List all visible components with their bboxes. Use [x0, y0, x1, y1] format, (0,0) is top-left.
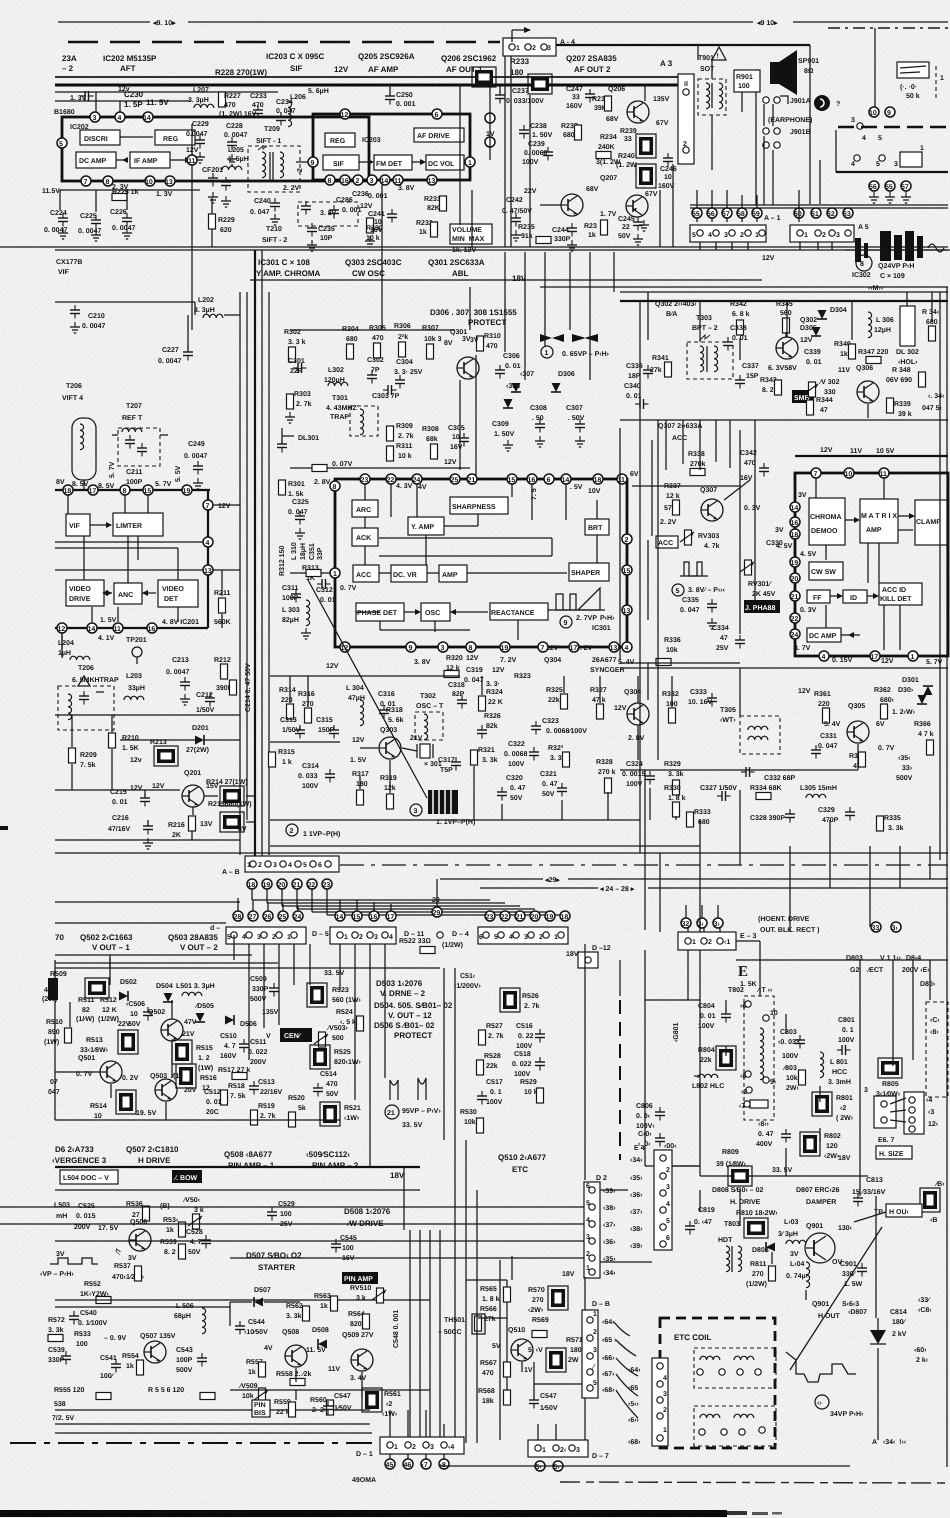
svg-text:3: 3	[864, 1087, 868, 1094]
svg-text:R518: R518	[228, 1083, 245, 1090]
pin 7 12V	[203, 500, 240, 510]
svg-text:SIF: SIF	[290, 64, 303, 73]
svg-text:680‹: 680‹	[880, 697, 895, 704]
resistor R313	[290, 565, 330, 582]
svg-text:100V: 100V	[514, 1071, 531, 1078]
svg-text:‹8›: ‹8›	[930, 1029, 939, 1036]
tag 65e	[628, 1385, 638, 1392]
svg-text:330: 330	[824, 389, 836, 396]
svg-text:11. 5V: 11. 5V	[146, 98, 169, 107]
pin 16 bottom	[340, 175, 350, 185]
svg-text:Q301 2SC633A: Q301 2SC633A	[428, 258, 485, 267]
node 2 waveform	[286, 824, 340, 838]
svg-text:il: il	[684, 80, 688, 88]
op-amp FM DET	[374, 155, 412, 170]
svg-text:D 2: D 2	[596, 1175, 607, 1182]
capacitor C313	[280, 717, 305, 739]
svg-text:18: 18	[64, 488, 72, 495]
svg-text:0. 022: 0. 022	[248, 1049, 268, 1056]
svg-text:1. 50V: 1. 50V	[494, 431, 515, 438]
label D508 PW DRIVE	[344, 1207, 391, 1228]
label R323	[486, 673, 531, 688]
capacitor C305	[448, 425, 469, 451]
svg-text:Q509 27V: Q509 27V	[342, 1332, 374, 1339]
inductor L506	[174, 1303, 206, 1334]
svg-text:47 k: 47 k	[592, 696, 606, 704]
pin 22 left	[790, 613, 800, 623]
svg-text:C514: C514	[320, 1071, 337, 1078]
svg-text:1: 1	[554, 934, 558, 941]
svg-text:D – 5: D – 5	[312, 931, 329, 938]
svg-text:!: !	[717, 53, 719, 60]
svg-text:2: 2	[272, 934, 276, 941]
capacitor C242	[502, 197, 532, 241]
wire dashed border right	[838, 127, 948, 142]
svg-text:‹VERGENCE 3: ‹VERGENCE 3	[52, 1156, 107, 1165]
tag 37r	[603, 1222, 616, 1229]
capacitor C246	[658, 153, 677, 190]
transistor Q901	[790, 1223, 853, 1266]
svg-text:1: 1	[542, 1447, 546, 1454]
svg-text:C511: C511	[250, 1039, 266, 1046]
svg-text:D507: D507	[254, 1287, 271, 1294]
resistor R347	[858, 349, 888, 364]
capacitor C901	[840, 1261, 867, 1288]
svg-text:7: 7	[84, 179, 88, 186]
wire hdrive rails	[55, 1167, 420, 1190]
svg-text:Q508 ‹8A677: Q508 ‹8A677	[224, 1150, 273, 1159]
capacitor C212	[196, 692, 215, 714]
wire aux lines left	[55, 86, 278, 101]
svg-text:1⁄50V: 1⁄50V	[334, 1405, 352, 1412]
tag 55	[885, 181, 895, 203]
pin 9 fbt	[763, 1077, 769, 1083]
resistor R517	[218, 1066, 250, 1080]
resistor R559	[274, 1399, 296, 1417]
svg-text:47: 47	[820, 407, 828, 414]
svg-text:0. 0047: 0. 0047	[112, 225, 135, 232]
svg-text:R571: R571	[566, 1337, 583, 1344]
svg-text:7: 7	[541, 645, 545, 652]
resistor R537	[112, 1263, 145, 1281]
part PB box	[920, 1181, 945, 1224]
svg-text:‹C506: ‹C506	[126, 1001, 145, 1008]
svg-text:V OUT – 2: V OUT – 2	[180, 943, 218, 952]
pin 18	[593, 474, 603, 484]
resistor R558	[276, 1370, 312, 1386]
transformer T802 FBT	[728, 987, 778, 1120]
op-amp CHROMA DEMOD	[809, 498, 845, 545]
svg-text:3. 3µH: 3. 3µH	[194, 307, 215, 314]
svg-text:V 1 1‹›: V 1 1‹›	[880, 955, 902, 962]
svg-text:R228 270(1W): R228 270(1W)	[215, 68, 267, 77]
wire diagonal pointer C312	[308, 580, 427, 798]
svg-text:ETC COIL: ETC COIL	[674, 1333, 711, 1342]
svg-text:C806: C806	[636, 1103, 653, 1110]
resistor R311	[387, 443, 413, 461]
resistor R563	[314, 1293, 338, 1311]
svg-text:50V: 50V	[542, 791, 555, 798]
resistor R528	[477, 1053, 501, 1075]
svg-text:D508: D508	[312, 1327, 329, 1334]
transformer T207	[112, 403, 168, 466]
svg-text:ABL: ABL	[452, 269, 469, 278]
resistor R345	[776, 301, 793, 333]
svg-text:L204: L204	[58, 640, 74, 647]
svg-text:C286: C286	[336, 197, 353, 204]
svg-text:0. 047: 0. 047	[818, 743, 838, 750]
svg-text:. 50V: . 50V	[568, 415, 585, 422]
diode D303	[917, 695, 927, 704]
svg-text:V. DRNE – 2: V. DRNE – 2	[380, 989, 426, 998]
resistor R341	[650, 355, 672, 377]
capacitor C540	[69, 1310, 108, 1327]
svg-text:‹65 ›: ‹65 ›	[602, 1337, 617, 1344]
svg-text:C325: C325	[292, 499, 309, 506]
tag 45	[385, 1454, 395, 1469]
capacitor C806	[636, 1103, 665, 1130]
part J.PHASE	[744, 600, 780, 613]
resistor R241 black	[636, 164, 656, 188]
svg-text:1. 5P: 1. 5P	[124, 100, 143, 109]
svg-text:KILL DET: KILL DET	[880, 596, 912, 603]
svg-text:82k: 82k	[486, 722, 498, 730]
svg-text:5: 5	[586, 1200, 590, 1207]
svg-text:470: 470	[372, 335, 384, 342]
svg-text:4 7 k: 4 7 k	[918, 730, 934, 738]
pin 9 left	[308, 157, 318, 167]
svg-text:0. 0068: 0. 0068	[504, 751, 527, 758]
svg-text:0. 0047: 0. 0047	[224, 132, 247, 139]
svg-text:R805: R805	[882, 1081, 899, 1088]
pin 23	[360, 474, 370, 484]
resistor R348	[886, 367, 926, 387]
svg-text:T803: T803	[724, 1221, 740, 1228]
svg-text:‹36›: ‹36›	[603, 1239, 616, 1246]
svg-text:R341: R341	[652, 355, 669, 362]
resistor R339	[887, 398, 912, 418]
svg-text:D503 1‹2076: D503 1‹2076	[376, 979, 423, 988]
svg-text:3. 3 k: 3. 3 k	[288, 338, 306, 346]
svg-text:(1/2W): (1/2W)	[442, 941, 463, 949]
svg-text:R316: R316	[298, 691, 315, 698]
svg-text:1. 8 k: 1. 8 k	[482, 1295, 500, 1303]
svg-text:330P: 330P	[554, 236, 571, 243]
part PIN BIS	[252, 1400, 270, 1417]
svg-text:13: 13	[165, 179, 173, 186]
wire chroma to connector row	[645, 770, 930, 932]
capacitor C342b	[740, 450, 769, 512]
svg-text:R528: R528	[484, 1053, 501, 1060]
svg-text:3: 3	[524, 934, 528, 941]
connector E-3	[678, 932, 756, 950]
svg-text:0. 033: 0. 033	[298, 773, 318, 780]
tag 34r	[603, 1270, 616, 1277]
capacitor C325	[288, 499, 309, 539]
svg-text:1/50V: 1/50V	[196, 706, 215, 714]
op-amp ACC ID KILL DET	[879, 583, 922, 605]
svg-text:PIN AMP – 2: PIN AMP – 2	[312, 1161, 359, 1170]
svg-text:047: 047	[48, 1089, 60, 1096]
svg-text:CX177B: CX177B	[56, 259, 82, 266]
svg-text:‹35›: ‹35›	[630, 1175, 643, 1182]
svg-text:12V: 12V	[186, 147, 199, 154]
tag 23	[322, 879, 332, 889]
svg-text:L207: L207	[193, 87, 209, 94]
pin 4	[203, 537, 213, 547]
svg-text:10k: 10k	[666, 646, 678, 654]
connector fan E6	[874, 1092, 939, 1134]
resistor R321	[471, 747, 498, 765]
resistor R302	[284, 329, 306, 362]
resistor R306	[394, 323, 411, 357]
svg-text:S‹6‹3: S‹6‹3	[842, 1301, 859, 1308]
svg-text:8: 8	[860, 261, 864, 268]
wires lower center	[270, 676, 700, 846]
capacitor C804	[698, 1003, 731, 1030]
svg-text:0. 01: 0. 01	[626, 393, 642, 400]
svg-text:C512: C512	[204, 1089, 221, 1096]
svg-text:2K 45V: 2K 45V	[752, 591, 776, 598]
wire sif to fmdet	[359, 159, 426, 165]
svg-text:12V: 12V	[444, 459, 457, 466]
svg-text:C544: C544	[248, 1319, 265, 1326]
svg-text:10k: 10k	[786, 1074, 798, 1082]
svg-text:200V: 200V	[250, 1059, 267, 1066]
wire mid rail	[55, 1300, 430, 1307]
svg-text:DC. VR: DC. VR	[393, 572, 417, 579]
dashed box right IC	[926, 1002, 948, 1097]
tag 66b	[602, 1355, 615, 1362]
label right caps	[914, 1297, 932, 1364]
pin 11b	[98, 623, 123, 642]
capacitor C224	[44, 210, 68, 239]
transistor Q207b	[600, 175, 658, 231]
svg-text:0. 65VP – P‹H›: 0. 65VP – P‹H›	[562, 351, 610, 358]
svg-text:‹G801: ‹G801	[673, 1022, 680, 1042]
capacitor C340	[624, 383, 649, 409]
pin 16	[527, 474, 537, 484]
capacitor C320	[497, 775, 526, 802]
svg-text:33. 5V: 33. 5V	[772, 1167, 793, 1174]
svg-text:1: 1	[516, 45, 520, 52]
label D803 G2 RECT	[846, 955, 936, 988]
svg-text:C801: C801	[838, 1017, 855, 1024]
svg-text:2. 2V: 2. 2V	[660, 519, 677, 526]
svg-text:R533: R533	[74, 1331, 91, 1338]
svg-text:C540: C540	[80, 1310, 97, 1317]
svg-text:22: 22	[791, 616, 799, 623]
op-amp REG	[155, 130, 195, 145]
svg-text:1. 2: 1. 2	[198, 1055, 210, 1062]
svg-text:1: 1	[911, 654, 915, 661]
svg-text:135V: 135V	[653, 96, 670, 103]
resistor R317	[352, 771, 369, 805]
svg-text:SYNCGER: SYNCGER	[590, 667, 625, 674]
tag 57	[901, 181, 911, 203]
resistor R333	[687, 809, 711, 827]
svg-text:12V: 12V	[360, 203, 373, 210]
svg-text:V. OUT – 12: V. OUT – 12	[388, 1011, 432, 1020]
resistor R342	[730, 301, 750, 335]
pot RV302	[804, 379, 840, 397]
svg-text:1. 8 k: 1. 8 k	[668, 794, 686, 802]
svg-text:C803: C803	[780, 1029, 797, 1036]
svg-text:4. 3V: 4. 3V	[396, 483, 413, 490]
speaker SP901	[770, 50, 819, 95]
test point TP201	[126, 637, 147, 664]
pin 8	[103, 176, 113, 186]
svg-text:5. 6k: 5. 6k	[388, 716, 404, 724]
svg-text:0. 015: 0. 015	[76, 1213, 96, 1220]
svg-text:‹5‹›: ‹5‹›	[628, 1401, 640, 1408]
svg-text:R301: R301	[288, 481, 305, 488]
coil etc1	[694, 1348, 776, 1388]
transistor Q507	[140, 1333, 176, 1363]
label CX177B VIF	[56, 259, 82, 276]
svg-text:1: 1	[545, 350, 549, 357]
svg-text:C337: C337	[742, 363, 759, 370]
svg-text:22 k: 22 k	[276, 1408, 290, 1416]
svg-text:C338: C338	[730, 325, 747, 332]
trap T206 6.5MHZ	[58, 665, 119, 730]
op-amp Y AMP	[408, 517, 444, 535]
svg-text:C51‹: C51‹	[460, 973, 476, 980]
wire vert-section verticals	[55, 944, 370, 1167]
resistor R525 black	[310, 1045, 362, 1069]
svg-text:0. 74µ‹: 0. 74µ‹	[786, 1273, 809, 1280]
pin 19 bottom	[500, 642, 510, 652]
pin 12b	[57, 623, 67, 633]
capacitor C516	[516, 1023, 545, 1050]
svg-text:PROTECT: PROTECT	[394, 1031, 432, 1040]
resistor R554	[122, 1353, 144, 1375]
svg-text:IC203: IC203	[362, 137, 381, 144]
svg-text:C327 1/50V: C327 1/50V	[700, 784, 737, 792]
svg-text:R310: R310	[484, 333, 501, 340]
op-amp CLAMP	[915, 500, 948, 545]
svg-text:R329: R329	[664, 761, 681, 768]
svg-text:C329: C329	[818, 807, 835, 814]
tag 67e	[628, 1417, 640, 1424]
svg-text:‹WT›: ‹WT›	[720, 717, 736, 724]
label TP H OUT	[854, 1204, 922, 1222]
svg-text:‹35‹: ‹35‹	[898, 755, 911, 762]
label 33.5V	[260, 968, 440, 977]
wire ic302 internal	[816, 478, 915, 638]
svg-text:2: 2	[683, 141, 687, 148]
tag 63	[843, 208, 869, 231]
svg-text:D508 1‹2076: D508 1‹2076	[344, 1207, 391, 1216]
capacitor C350	[896, 755, 913, 782]
capacitor C319	[464, 667, 505, 684]
svg-text:47V: 47V	[184, 1019, 197, 1026]
inductor L803	[778, 1219, 806, 1244]
svg-text:‹7: ‹7	[739, 1103, 745, 1110]
svg-text:4: 4	[206, 540, 210, 547]
resistor R565	[480, 1286, 511, 1303]
svg-text:A 5: A 5	[858, 224, 869, 231]
svg-text:‹10⁄50V: ‹10⁄50V	[244, 1329, 268, 1336]
svg-text:17. 5V: 17. 5V	[98, 1225, 119, 1232]
wire top interconnect 9.10	[58, 20, 948, 27]
svg-text:12V: 12V	[614, 705, 627, 712]
control VOLUME	[450, 224, 492, 254]
svg-text:‹65: ‹65	[628, 1385, 638, 1392]
node E 1.5K	[738, 964, 757, 988]
svg-text:100V‹: 100V‹	[636, 1123, 655, 1130]
svg-text:BPT – 2: BPT – 2	[692, 325, 718, 332]
svg-text:8. 5V: 8. 5V	[98, 483, 115, 490]
svg-text:06V 690: 06V 690	[886, 377, 912, 384]
resistor R228 black	[460, 67, 508, 87]
pin 4r right	[622, 642, 632, 652]
transistor Q506	[115, 1219, 151, 1256]
svg-text:8Ω: 8Ω	[804, 68, 814, 75]
label R510	[44, 1019, 72, 1046]
svg-text:(1W): (1W)	[198, 1064, 213, 1072]
svg-text:2W‹: 2W‹	[786, 1085, 800, 1092]
capacitor C506	[126, 1001, 153, 1028]
svg-text:3›: 3›	[892, 925, 899, 932]
svg-text:⁄V 302: ⁄V 302	[818, 379, 840, 386]
svg-text:CHROMA: CHROMA	[810, 514, 842, 521]
svg-text:330P: 330P	[252, 986, 269, 993]
tag 33b	[891, 922, 901, 932]
resistor R337	[664, 483, 681, 515]
resistor R536	[126, 1201, 150, 1221]
svg-text:R330: R330	[664, 785, 681, 792]
svg-text:10: 10	[452, 434, 460, 441]
svg-text:L202: L202	[198, 297, 214, 304]
svg-text:‹307: ‹307	[520, 371, 534, 378]
svg-text:50V: 50V	[326, 1091, 339, 1098]
svg-text:J901B: J901B	[790, 129, 811, 136]
svg-text:0. 0‹: 0. 0‹	[636, 1113, 651, 1120]
resistor R234	[596, 134, 621, 166]
pin 8 bottom	[325, 175, 335, 185]
resistor R810 black	[736, 1210, 778, 1238]
capacitor C819	[685, 1207, 715, 1235]
connector D-B	[582, 1301, 610, 1398]
svg-text:0. 0068⁄100V: 0. 0068⁄100V	[546, 728, 587, 735]
svg-text:‹38›: ‹38›	[630, 1226, 643, 1233]
svg-text:82: 82	[82, 1007, 90, 1014]
svg-text:890: 890	[48, 1029, 60, 1036]
svg-text:◂9. 10▸: ◂9. 10▸	[152, 20, 176, 27]
transistor Q501	[48, 1055, 139, 1096]
pin 13 bottom	[609, 642, 619, 652]
svg-text:‹6: ‹6	[740, 1003, 746, 1010]
resistor R555	[54, 1387, 111, 1400]
svg-text:⁄33/16V: ⁄33/16V	[860, 1188, 886, 1196]
svg-text:1: 1	[692, 939, 696, 946]
svg-text:120: 120	[826, 1143, 838, 1150]
svg-text:1. 3V: 1. 3V	[156, 191, 173, 198]
label ETC COIL	[660, 1318, 775, 1448]
transformer T302	[415, 693, 444, 740]
svg-text:12V: 12V	[218, 503, 231, 510]
svg-text:3. 3k: 3. 3k	[668, 770, 684, 778]
svg-text:63: 63	[843, 211, 851, 218]
svg-text:21: 21	[791, 594, 799, 601]
resistor R237	[561, 123, 582, 140]
svg-text:3: 3	[724, 232, 728, 239]
svg-text:2 kV: 2 kV	[892, 1330, 907, 1338]
resistor R530	[460, 1109, 484, 1133]
svg-text:‹33⁄: ‹33⁄	[918, 1297, 931, 1304]
wire right border vertical	[940, 287, 947, 1467]
